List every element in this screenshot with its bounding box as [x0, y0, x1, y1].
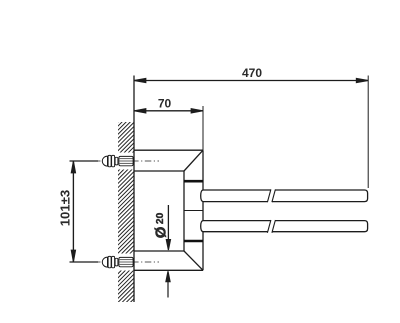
block outline [134, 150, 203, 270]
dimension 101±3 [70, 161, 99, 262]
right edge [202, 150, 204, 270]
front face bottom line [134, 250, 184, 252]
dimension Ø20 leader top arrow [166, 205, 170, 250]
svg-text:20: 20 [155, 212, 166, 224]
centerline [94, 160, 159, 162]
break gap [267, 189, 275, 203]
wall hatching [118, 122, 134, 302]
mid thin line [184, 210, 203, 212]
hatch hole top screw [117, 153, 134, 170]
front face top line [134, 170, 184, 172]
top edge [134, 149, 203, 151]
bottom rail [201, 219, 368, 233]
front face right line [183, 171, 185, 251]
extension line right of 70 dim [202, 106, 204, 150]
thick bar top [184, 180, 203, 183]
wall face line [133, 76, 135, 303]
ring 3 [115, 157, 118, 165]
chamfer diagonal top [184, 150, 203, 171]
chamfer diagonal bottom [184, 251, 203, 270]
bottom edge [134, 269, 203, 271]
anchor thread lines [120, 158, 133, 160]
thick bar bottom [184, 240, 203, 243]
dimension 70 [134, 109, 203, 113]
dimension Ø20 bottom arrow [166, 271, 170, 297]
break gap [267, 219, 275, 233]
bottom screw with wall anchor (copy of top screw) [94, 256, 159, 267]
anchor body [119, 156, 133, 165]
dimension 470 [134, 78, 368, 82]
top rail [201, 189, 368, 203]
top screw with wall anchor [94, 155, 159, 166]
svg-text:101±3: 101±3 [58, 190, 73, 227]
extension line right of 470 dim [367, 76, 369, 189]
hatch hole bottom screw [117, 254, 134, 271]
svg-text:70: 70 [158, 97, 172, 111]
svg-text:470: 470 [242, 66, 262, 80]
ring 2 [112, 155, 115, 166]
svg-text:Ø: Ø [153, 226, 170, 238]
ring 1 [108, 155, 111, 166]
dome head [102, 156, 107, 166]
